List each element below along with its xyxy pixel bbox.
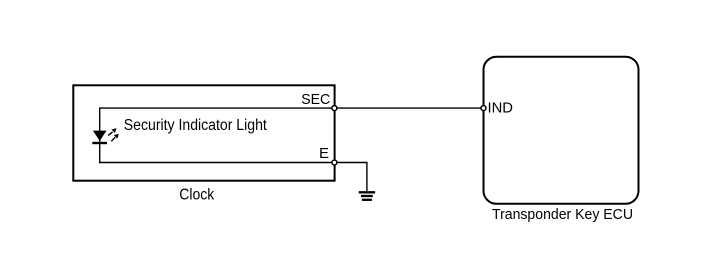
terminal E [332, 160, 337, 165]
clock box [73, 85, 334, 180]
svg-text:SEC: SEC [301, 91, 330, 108]
svg-text:Security Indicator Light: Security Indicator Light [124, 117, 268, 134]
ground [359, 192, 375, 200]
transponder key ECU box [484, 57, 639, 204]
svg-text:Transponder Key ECU: Transponder Key ECU [492, 206, 633, 223]
wire E to ground [334, 163, 367, 192]
svg-text:Clock: Clock [179, 187, 214, 204]
terminal IND [481, 106, 486, 111]
wire inner loop SEC to E [100, 108, 335, 162]
svg-text:E: E [319, 145, 329, 162]
svg-text:IND: IND [488, 100, 514, 117]
terminal SEC [332, 106, 337, 111]
wire SEC to IND [334, 107, 483, 109]
LED D1 [92, 128, 119, 143]
